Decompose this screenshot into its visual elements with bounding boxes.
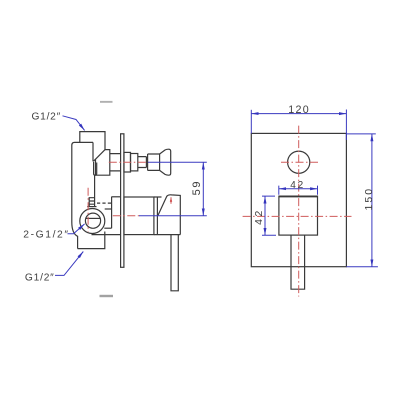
dim 42 left ext xyxy=(262,196,276,235)
handle lever front xyxy=(291,235,305,289)
inlet port outer circle xyxy=(80,209,105,234)
riser pipe body (vertical bar) xyxy=(72,142,93,248)
handle lever bar xyxy=(171,235,178,291)
inlet vertical centerline xyxy=(87,188,89,232)
red centerlines left view xyxy=(88,162,171,232)
lever direction arrow xyxy=(170,197,172,204)
diverter axis centerline xyxy=(109,161,148,163)
knob ring xyxy=(147,154,149,170)
body bottom edge xyxy=(92,234,121,236)
wall plate front xyxy=(251,133,346,266)
inlet port inner circle xyxy=(85,213,100,228)
dim 150 line xyxy=(371,134,373,267)
dim 150 ext bottom xyxy=(346,266,378,268)
blue dimensions right view xyxy=(251,110,378,267)
dim 59 extension bottom xyxy=(139,215,207,217)
svg-text:42: 42 xyxy=(254,208,265,225)
cartridge stem vertical xyxy=(94,175,96,206)
flange top edge thick xyxy=(279,196,318,198)
handle lever head xyxy=(158,195,181,235)
svg-text:42: 42 xyxy=(290,180,305,191)
leader 2-G1/2 xyxy=(68,224,85,234)
dim 42 left line xyxy=(264,196,266,235)
valve axis centerline xyxy=(113,215,140,217)
transition panel xyxy=(96,150,110,176)
leader G1/2 bottom xyxy=(55,252,83,276)
svg-text:59: 59 xyxy=(191,180,203,195)
watermark smudge top xyxy=(100,101,113,103)
spout pipe to plate xyxy=(110,154,121,171)
diverter escutcheon ring xyxy=(124,152,131,172)
leader G1/2 top xyxy=(63,116,85,131)
handle flange square xyxy=(279,196,318,235)
svg-text:G1/2″: G1/2″ xyxy=(32,112,61,123)
chamfer diagonal xyxy=(93,149,105,161)
bottom inlet block xyxy=(78,232,105,249)
cartridge line y228 xyxy=(104,227,111,229)
dim 120 ext right xyxy=(345,110,347,141)
valve flat top xyxy=(87,206,96,208)
dim 59 extension top xyxy=(148,161,207,163)
vertical centerline xyxy=(298,126,300,297)
cartridge front edge xyxy=(111,197,113,228)
svg-text:120: 120 xyxy=(288,104,310,116)
dim 42 top line xyxy=(279,188,318,190)
wall plate edge-on xyxy=(121,134,124,267)
svg-text:2-G1/2″: 2-G1/2″ xyxy=(23,230,69,241)
diverter neck xyxy=(138,157,147,168)
hidden line y203 (dashed) xyxy=(97,202,111,204)
svg-text:150: 150 xyxy=(363,187,375,211)
knob cylinder xyxy=(148,154,160,170)
dim 120 line xyxy=(251,113,346,115)
cartridge line y209 xyxy=(105,208,112,210)
watermark smudge bottom xyxy=(100,295,114,297)
red centerlines right view xyxy=(243,126,352,297)
blue leaders and labels xyxy=(55,116,207,276)
diverter body step xyxy=(131,154,138,171)
body top edge to plate xyxy=(111,196,120,198)
dim 59 line xyxy=(202,162,204,216)
handle horizontal centerline xyxy=(243,215,352,217)
handle sleeve xyxy=(154,197,180,235)
inlet screw slot xyxy=(86,217,101,219)
svg-text:G1/2″: G1/2″ xyxy=(25,272,55,283)
diverter knob front xyxy=(288,151,310,173)
pull knob flare xyxy=(160,149,171,175)
small pin under chamfer xyxy=(94,162,97,175)
top elbow block xyxy=(80,132,105,150)
dim 120 ext left xyxy=(250,110,252,134)
riser pipe right edge xyxy=(92,142,94,161)
threaded stem xyxy=(89,198,94,207)
dim 150 ext top xyxy=(346,133,375,135)
knob horizontal centerline xyxy=(281,161,318,163)
dim 42 top ext xyxy=(279,186,318,195)
handle escutcheon edge-on xyxy=(124,197,154,235)
